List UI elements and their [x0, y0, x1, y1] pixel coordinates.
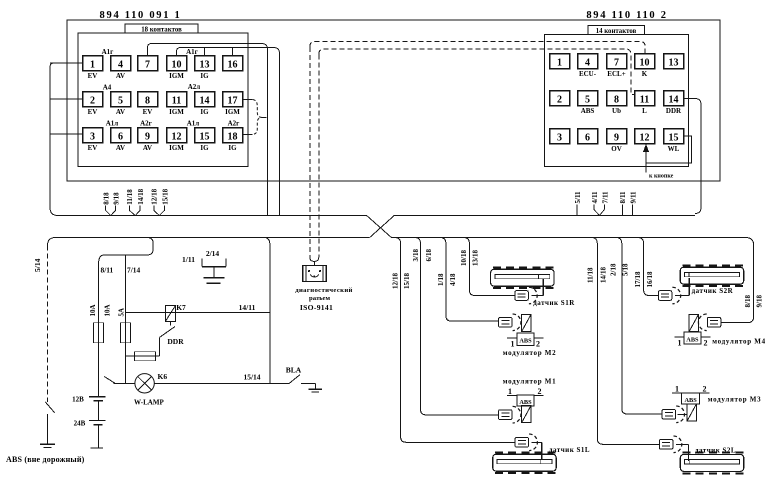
svg-text:9: 9 [614, 132, 619, 143]
svg-text:5: 5 [585, 94, 590, 105]
svg-text:7/14: 7/14 [127, 266, 140, 275]
svg-text:3/18: 3/18 [412, 249, 420, 262]
svg-text:DDR: DDR [666, 107, 682, 115]
svg-text:датчик S1L: датчик S1L [549, 446, 590, 454]
svg-text:1: 1 [511, 340, 515, 349]
svg-text:17: 17 [228, 95, 238, 106]
svg-text:14/11: 14/11 [239, 303, 256, 312]
svg-text:15/14: 15/14 [243, 373, 260, 382]
svg-text:15: 15 [669, 132, 679, 143]
svg-text:10А: 10А [104, 304, 112, 316]
svg-text:2/18: 2/18 [610, 263, 618, 276]
svg-text:3: 3 [557, 132, 562, 143]
svg-text:9: 9 [145, 131, 150, 142]
svg-text:5/14: 5/14 [33, 258, 42, 272]
svg-text:14: 14 [669, 94, 679, 105]
svg-text:13: 13 [200, 59, 210, 70]
svg-text:А1г: А1г [186, 48, 198, 56]
svg-text:11: 11 [172, 95, 181, 106]
svg-text:10: 10 [172, 59, 182, 70]
svg-text:2: 2 [538, 387, 542, 396]
svg-text:ABS: ABS [581, 107, 595, 115]
svg-text:ABS (вне дорожный): ABS (вне дорожный) [6, 455, 85, 464]
svg-text:15/18: 15/18 [162, 188, 170, 204]
svg-text:894 110 091 1: 894 110 091 1 [100, 10, 182, 21]
svg-text:8/18: 8/18 [744, 295, 752, 308]
svg-text:9/18: 9/18 [113, 192, 121, 205]
svg-text:EV: EV [88, 72, 98, 80]
svg-text:12/18: 12/18 [151, 188, 159, 204]
svg-text:18 контактов: 18 контактов [141, 27, 182, 34]
svg-text:4/11: 4/11 [591, 191, 599, 204]
svg-text:IG: IG [200, 108, 209, 116]
svg-text:17/18: 17/18 [634, 271, 642, 287]
svg-text:OV: OV [611, 145, 622, 153]
svg-text:А1л: А1л [106, 119, 119, 127]
svg-text:датчик S2L: датчик S2L [695, 447, 736, 455]
svg-text:IG: IG [200, 144, 209, 152]
svg-text:13: 13 [669, 57, 679, 68]
svg-text:5/18: 5/18 [622, 263, 630, 276]
svg-text:W-LAMP: W-LAMP [134, 399, 164, 407]
svg-text:IG: IG [200, 72, 209, 80]
svg-text:модулятор М1: модулятор М1 [503, 377, 557, 385]
svg-text:4: 4 [585, 57, 590, 68]
svg-text:K: K [642, 70, 648, 78]
svg-text:13/18: 13/18 [471, 250, 479, 266]
svg-text:9/11: 9/11 [630, 191, 638, 204]
svg-text:8/18: 8/18 [103, 192, 111, 205]
svg-text:IG: IG [228, 144, 237, 152]
svg-text:модулятор М3: модулятор М3 [708, 395, 762, 403]
svg-text:3: 3 [90, 131, 95, 142]
svg-text:А2г: А2г [228, 119, 240, 127]
svg-text:12/18: 12/18 [392, 273, 400, 289]
svg-text:10: 10 [640, 57, 650, 68]
svg-text:7: 7 [145, 59, 150, 70]
svg-text:16: 16 [228, 59, 238, 70]
svg-text:IGM: IGM [169, 144, 184, 152]
svg-text:5: 5 [118, 95, 123, 106]
svg-text:1: 1 [678, 339, 682, 348]
svg-text:разъем: разъем [309, 295, 331, 302]
svg-text:10А: 10А [89, 304, 97, 316]
svg-text:2: 2 [90, 95, 95, 106]
svg-text:L: L [642, 107, 647, 115]
svg-text:EV: EV [143, 108, 153, 116]
svg-text:1/11: 1/11 [182, 255, 195, 264]
svg-text:1/18: 1/18 [437, 273, 445, 286]
svg-text:14 контактов: 14 контактов [596, 28, 637, 35]
svg-text:модулятор М2: модулятор М2 [503, 349, 557, 357]
svg-text:датчик S2R: датчик S2R [692, 287, 734, 295]
svg-text:А4: А4 [103, 84, 112, 92]
svg-text:BLA: BLA [286, 366, 302, 375]
svg-text:5/11: 5/11 [574, 191, 582, 204]
svg-text:8/11: 8/11 [101, 266, 114, 275]
svg-text:IGM: IGM [169, 108, 184, 116]
svg-text:EV: EV [88, 108, 98, 116]
svg-text:А2л: А2л [188, 83, 201, 91]
svg-text:11: 11 [640, 94, 649, 105]
svg-text:AV: AV [116, 108, 125, 116]
svg-text:А1г: А1г [102, 48, 114, 56]
svg-text:AV: AV [116, 72, 125, 80]
svg-text:24В: 24В [74, 420, 86, 428]
svg-text:8: 8 [145, 95, 150, 106]
svg-text:6: 6 [118, 131, 123, 142]
svg-text:6: 6 [585, 132, 590, 143]
svg-text:EV: EV [88, 144, 98, 152]
svg-text:ABS: ABS [519, 399, 532, 406]
svg-text:5А: 5А [117, 308, 125, 317]
svg-text:7: 7 [614, 57, 619, 68]
svg-text:14/18: 14/18 [600, 267, 608, 283]
svg-text:WL: WL [668, 145, 680, 153]
svg-text:4: 4 [118, 59, 123, 70]
svg-text:18: 18 [228, 131, 238, 142]
svg-text:7/11: 7/11 [601, 191, 609, 204]
svg-text:2: 2 [703, 385, 707, 394]
svg-text:AV: AV [143, 144, 152, 152]
svg-text:ISO-9141: ISO-9141 [300, 303, 333, 312]
svg-text:1: 1 [508, 387, 512, 396]
svg-text:IGM: IGM [225, 108, 240, 116]
svg-text:10/18: 10/18 [460, 250, 468, 266]
svg-text:14: 14 [200, 95, 210, 106]
svg-text:1: 1 [557, 57, 562, 68]
svg-text:DDR: DDR [167, 337, 184, 346]
svg-text:А2г: А2г [140, 119, 152, 127]
svg-text:15: 15 [200, 131, 210, 142]
svg-text:ECU-: ECU- [579, 70, 597, 78]
svg-text:8/11: 8/11 [619, 191, 627, 204]
svg-text:модулятор М4: модулятор М4 [712, 337, 766, 345]
svg-text:K7: K7 [176, 303, 186, 312]
svg-text:K6: K6 [158, 372, 168, 381]
svg-text:AV: AV [116, 144, 125, 152]
svg-text:6/18: 6/18 [425, 249, 433, 262]
svg-text:ABS: ABS [686, 337, 699, 344]
svg-text:датчик S1R: датчик S1R [533, 299, 575, 307]
svg-text:14/18: 14/18 [137, 188, 145, 204]
svg-text:ECL+: ECL+ [607, 70, 625, 78]
svg-text:16/18: 16/18 [646, 271, 654, 287]
svg-text:ABS: ABS [519, 338, 532, 345]
svg-text:диагностический: диагностический [295, 287, 353, 294]
svg-text:12: 12 [640, 132, 650, 143]
svg-text:9/18: 9/18 [756, 295, 764, 308]
svg-text:IGM: IGM [169, 72, 184, 80]
svg-text:2: 2 [704, 339, 708, 348]
svg-text:4/18: 4/18 [449, 273, 457, 286]
svg-text:1: 1 [675, 385, 679, 394]
svg-text:15/18: 15/18 [403, 273, 411, 289]
svg-text:А1л: А1л [187, 119, 200, 127]
svg-text:1: 1 [90, 59, 95, 70]
svg-text:Ub: Ub [612, 107, 621, 115]
svg-text:12В: 12В [72, 396, 84, 404]
svg-text:894 110 110 2: 894 110 110 2 [586, 10, 667, 21]
svg-text:2: 2 [557, 94, 562, 105]
svg-text:ABS: ABS [684, 397, 697, 404]
svg-text:8: 8 [614, 94, 619, 105]
svg-text:2/14: 2/14 [206, 249, 220, 258]
svg-text:11/18: 11/18 [586, 267, 594, 283]
svg-text:2: 2 [536, 340, 540, 349]
svg-text:11/18: 11/18 [126, 189, 134, 205]
svg-text:к кнопке: к кнопке [649, 174, 674, 180]
svg-text:12: 12 [172, 131, 182, 142]
